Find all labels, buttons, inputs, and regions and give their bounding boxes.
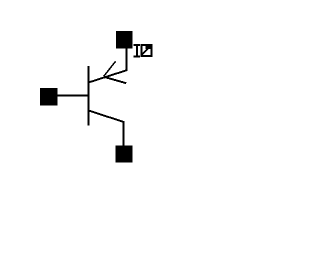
transistor Q1 emitter arrow barb upper [104, 61, 116, 76]
pin label 0 (slashed zero of "I0") [141, 44, 153, 57]
wire emitter vertical [126, 48, 128, 71]
node base terminal pad [40, 88, 58, 106]
wire collector vertical [123, 121, 125, 146]
node collector terminal pad [116, 146, 133, 163]
node emitter terminal pad [116, 31, 133, 49]
transistor Q1 base bar [88, 66, 90, 126]
transistor Q1 collector lead [89, 111, 123, 122]
transistor Q1 emitter arrow barb lower [104, 77, 126, 83]
transistor Q1 emitter lead [89, 70, 127, 82]
pin label I (letter I of "I0") [133, 44, 140, 58]
wire base lead [57, 95, 88, 97]
